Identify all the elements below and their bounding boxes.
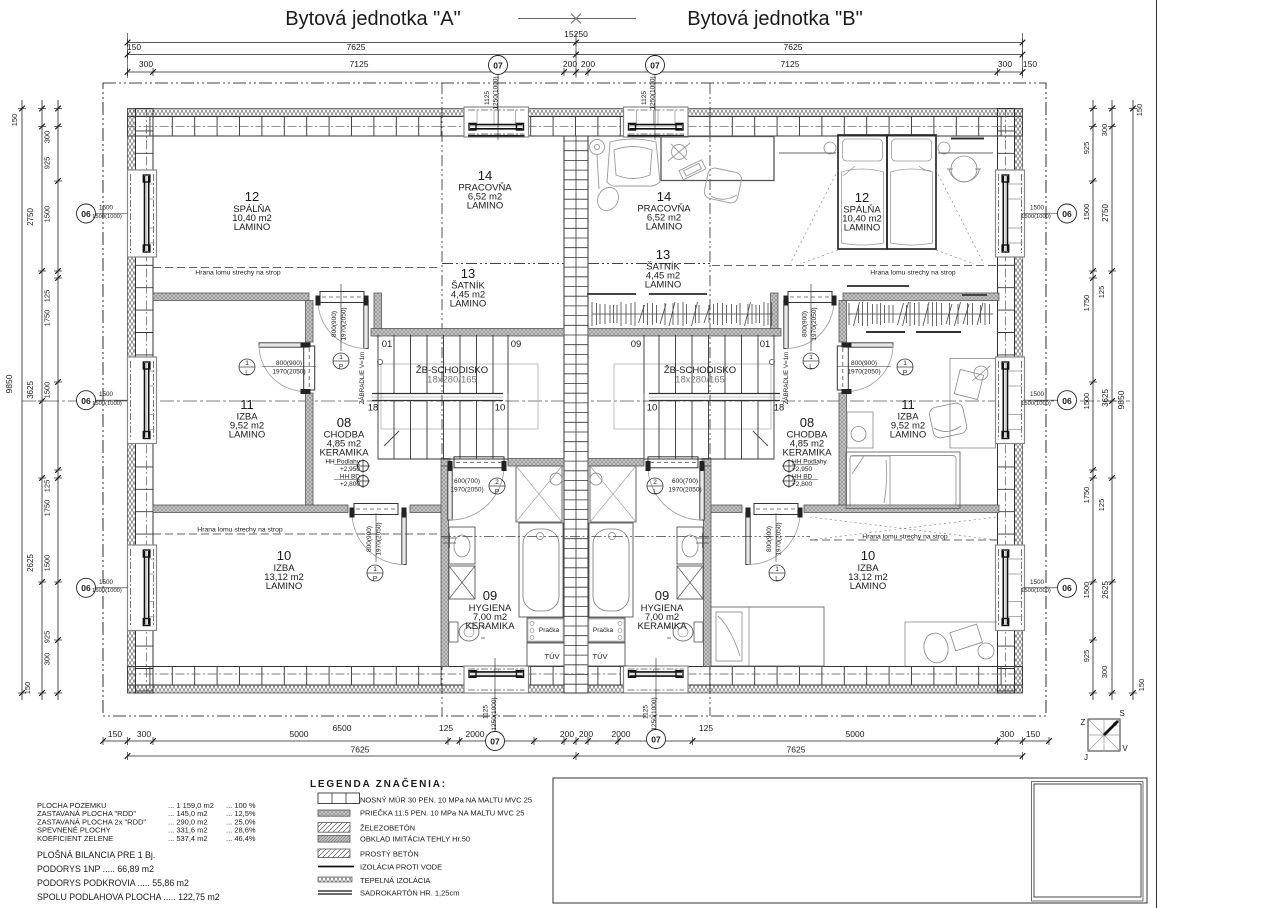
svg-text:7125: 7125: [350, 59, 369, 69]
window label 06: [1058, 204, 1077, 223]
outer wall bottom: [128, 685, 1023, 693]
svg-text:PODORYS PODKROVIA ..... 55,86: PODORYS PODKROVIA ..... 55,86 m2: [37, 878, 189, 888]
window label 06: [1058, 578, 1077, 597]
svg-text:IZOLÁCIA PROTI VODE: IZOLÁCIA PROTI VODE: [360, 863, 442, 872]
svg-text:ZÁBRADLIE V=1m: ZÁBRADLIE V=1m: [783, 352, 790, 404]
svg-text:1: 1: [245, 360, 249, 367]
svg-text:P: P: [373, 576, 377, 583]
svg-text:P: P: [495, 489, 499, 496]
svg-text:3625: 3625: [1101, 389, 1110, 407]
svg-text:+2,800: +2,800: [340, 481, 360, 488]
section line: [22, 400, 1130, 402]
window axis A bottom: [494, 658, 496, 731]
svg-text:07: 07: [490, 737, 500, 747]
svg-text:TÚV: TÚV: [593, 652, 608, 661]
toilet A: [449, 622, 458, 642]
svg-text:1250(1000): 1250(1000): [493, 76, 500, 109]
door hygiena A: [448, 466, 452, 520]
svg-text:S: S: [1119, 709, 1124, 718]
svg-text:800(900): 800(900): [331, 311, 338, 337]
svg-text:9850: 9850: [1116, 390, 1126, 409]
beds room 12 B: [838, 135, 936, 249]
wall axis left: [146, 109, 148, 694]
party wall: [564, 136, 588, 693]
svg-text:14: 14: [657, 189, 671, 204]
svg-text:NOSNÝ MÚR 30 PEN. 10 MPa NA MA: NOSNÝ MÚR 30 PEN. 10 MPa NA MALTU MVC 25: [360, 796, 532, 805]
svg-text:150: 150: [1023, 59, 1037, 69]
svg-text:2750: 2750: [26, 208, 35, 226]
desk room 14 B: [661, 137, 774, 181]
svg-text:06: 06: [81, 583, 91, 593]
svg-text:125: 125: [43, 480, 52, 493]
washing machine Pracka B: [588, 618, 625, 642]
svg-text:TÚV: TÚV: [545, 652, 560, 661]
svg-text:LEGENDA ZNAČENIA:: LEGENDA ZNAČENIA:: [310, 777, 447, 790]
legend item obklad: [318, 836, 350, 843]
door room 10 B: [746, 513, 750, 565]
svg-text:800(900): 800(900): [366, 526, 373, 552]
svg-text:PRIEČKA 11.5 PEN. 10 MPa NA M: PRIEČKA 11.5 PEN. 10 MPa NA MALTU MVC 25: [360, 809, 524, 818]
svg-text:150: 150: [1137, 679, 1146, 692]
svg-text:1500: 1500: [43, 206, 52, 223]
svg-text:925: 925: [43, 157, 52, 170]
window label 06: [1058, 391, 1077, 410]
svg-text:300: 300: [43, 131, 52, 144]
svg-text:1970(2050): 1970(2050): [376, 522, 383, 555]
svg-text:11: 11: [901, 397, 915, 412]
window right wall top: [996, 170, 1025, 257]
svg-text:6500: 6500: [333, 723, 352, 733]
svg-text:LAMINO: LAMINO: [645, 280, 681, 291]
svg-text:1500: 1500: [1030, 205, 1045, 212]
roof break line room 10 A: [153, 533, 440, 535]
door opening frame: [304, 346, 315, 390]
svg-text:18: 18: [368, 403, 379, 414]
svg-text:1: 1: [373, 566, 377, 573]
svg-text:1125: 1125: [483, 705, 490, 719]
window label 06: [77, 204, 96, 223]
svg-text:7625: 7625: [347, 42, 366, 52]
boiler TUV A: [527, 643, 564, 666]
svg-text:01: 01: [760, 339, 771, 350]
sheet border: [1156, 0, 1158, 908]
floor level symbols corridor: [358, 461, 369, 472]
svg-text:P: P: [903, 370, 907, 377]
svg-text:9850: 9850: [4, 374, 14, 393]
svg-text:150: 150: [1135, 104, 1144, 117]
svg-text:300: 300: [139, 59, 153, 69]
legend item beton: [318, 849, 350, 858]
svg-text:LAMINO: LAMINO: [266, 581, 302, 592]
svg-text:06: 06: [1062, 396, 1072, 406]
svg-text:LAMINO: LAMINO: [234, 222, 270, 233]
outer wall left: [128, 109, 136, 694]
legend item nosny: [318, 793, 360, 804]
window bottom wall A: [464, 666, 529, 693]
stair ZB-SCHODISKO A: [378, 335, 508, 459]
partition corridor B upper: [839, 301, 847, 343]
svg-text:1500: 1500: [1082, 582, 1091, 599]
window axis B top: [654, 75, 656, 140]
partition above room 10 B left: [705, 505, 742, 513]
grid circle 07 A top: [489, 56, 508, 75]
svg-text:08: 08: [800, 415, 814, 430]
svg-text:Z: Z: [1081, 718, 1086, 727]
partition hygiena B right: [704, 466, 712, 667]
svg-text:300: 300: [998, 59, 1012, 69]
shower A: [516, 466, 562, 522]
svg-text:J: J: [1084, 753, 1088, 762]
svg-text:2000: 2000: [612, 729, 631, 739]
desk room 10 B: [905, 622, 997, 666]
svg-text:1970(2050): 1970(2050): [272, 369, 305, 376]
svg-text:12: 12: [245, 189, 259, 204]
bed room 10 B: [711, 607, 824, 666]
svg-text:10: 10: [861, 548, 875, 563]
svg-text:10: 10: [647, 403, 658, 414]
door room 11 B: [847, 343, 894, 347]
partition corridor B lower: [839, 393, 847, 507]
cabinet B: [677, 566, 703, 599]
legend item izol: [318, 866, 354, 868]
partition hygiena A top-left: [441, 459, 450, 467]
svg-text:5000: 5000: [290, 729, 309, 739]
window right wall middle: [996, 357, 1025, 444]
svg-text:5000: 5000: [846, 729, 865, 739]
right dimension chains: [1132, 100, 1134, 700]
svg-text:1500: 1500: [1030, 391, 1045, 398]
svg-text:1750: 1750: [1082, 295, 1091, 312]
svg-text:2750: 2750: [1101, 204, 1110, 222]
door axis corridor B: [810, 284, 812, 351]
roof projection lines room 10 B: [810, 517, 997, 540]
svg-text:1: 1: [775, 566, 779, 573]
svg-text:200: 200: [579, 729, 593, 739]
svg-text:1500(1000): 1500(1000): [1021, 588, 1051, 594]
nightstand room 11 B: [847, 412, 873, 448]
svg-text:+2,950: +2,950: [792, 466, 812, 473]
bottom dimension chain: [103, 740, 1049, 742]
svg-text:13: 13: [461, 266, 475, 281]
roof break line room 12 A: [153, 267, 440, 269]
window left wall middle: [128, 357, 157, 444]
svg-text:1970(2050): 1970(2050): [776, 522, 783, 555]
svg-text:06: 06: [81, 396, 91, 406]
svg-text:7125: 7125: [781, 59, 800, 69]
axis line room 14 B: [709, 83, 711, 716]
window label 06: [77, 391, 96, 410]
svg-text:1500: 1500: [1082, 393, 1091, 410]
svg-text:2: 2: [653, 479, 657, 486]
bottom dimension 7625: [128, 755, 1023, 757]
headboard ledge room 12 B: [779, 152, 836, 154]
north compass: [1088, 719, 1120, 751]
svg-text:125: 125: [1097, 499, 1106, 512]
svg-text:1: 1: [339, 354, 343, 361]
svg-text:07: 07: [493, 61, 503, 71]
partition above room 10 A: [153, 505, 348, 513]
roof break line across bathrooms: [441, 536, 810, 538]
svg-text:300: 300: [137, 729, 151, 739]
window top wall B: [624, 107, 689, 137]
door opening frame: [354, 504, 398, 515]
svg-text:L: L: [775, 576, 779, 583]
svg-text:1970(2050): 1970(2050): [847, 369, 880, 376]
svg-text:800(900): 800(900): [276, 360, 302, 367]
svg-text:925: 925: [43, 631, 52, 644]
svg-text:1250(1000): 1250(1000): [651, 697, 658, 730]
window label 06: [77, 578, 96, 597]
svg-text:7625: 7625: [784, 42, 803, 52]
svg-text:14: 14: [478, 168, 492, 183]
svg-text:06: 06: [81, 209, 91, 219]
svg-text:KERAMIKA: KERAMIKA: [782, 448, 832, 459]
svg-text:PODORYS 1NP ..... 66,89 m2: PODORYS 1NP ..... 66,89 m2: [37, 864, 154, 874]
svg-text:1500: 1500: [99, 391, 114, 398]
washing machine Pracka A: [527, 618, 564, 642]
bed room 11 B: [846, 452, 960, 509]
svg-text:1500(1000): 1500(1000): [92, 214, 122, 220]
svg-text:300: 300: [43, 653, 52, 666]
svg-text:1750: 1750: [43, 310, 52, 327]
wall axis bottom: [128, 673, 1023, 675]
partition satnik B: [588, 329, 781, 337]
window left wall top: [128, 170, 157, 257]
window sill top B: [628, 135, 685, 137]
door room 11 A: [259, 343, 306, 347]
svg-text:1500: 1500: [43, 382, 52, 399]
grid circle 07 B bottom: [647, 730, 666, 749]
grid circle 07 A bottom: [486, 732, 505, 751]
svg-text:1250(1000): 1250(1000): [650, 76, 657, 109]
property boundary line: [103, 83, 1046, 716]
svg-text:200: 200: [560, 729, 574, 739]
floor level symbols corridor: [784, 461, 795, 472]
svg-text:KOEFICIENT ZELENE: KOEFICIENT ZELENE: [37, 834, 113, 843]
svg-text:01: 01: [382, 339, 393, 350]
svg-text:... 537,4 m2: ... 537,4 m2: [168, 834, 208, 843]
svg-text:TEPELNÁ IZOLÁCIA: TEPELNÁ IZOLÁCIA: [360, 876, 430, 885]
svg-text:1: 1: [809, 354, 813, 361]
partition corridor B left: [771, 293, 779, 336]
extension lines top: [127, 33, 129, 78]
partition hygiena A top-right: [508, 459, 564, 467]
wardrobe rails satnik B: [587, 294, 773, 326]
svg-text:925: 925: [1082, 142, 1091, 155]
partition corridor A upper: [306, 301, 314, 343]
svg-text:Hrana lomu strechy na strop: Hrana lomu strechy na strop: [195, 270, 281, 277]
window sill top A: [468, 135, 525, 137]
partition above room 10 A right: [410, 505, 447, 513]
door axis corridor A: [340, 284, 342, 351]
partition satnik A: [371, 329, 564, 337]
bathtub A: [519, 523, 563, 617]
svg-text:150: 150: [23, 682, 32, 695]
svg-text:07: 07: [650, 61, 660, 71]
door hygiena B: [700, 466, 704, 520]
svg-text:18x280/165: 18x280/165: [675, 375, 725, 386]
svg-text:1125: 1125: [643, 705, 650, 719]
room 14 A boundary dash: [442, 263, 564, 265]
svg-text:1500: 1500: [1082, 204, 1091, 221]
svg-text:125: 125: [43, 290, 52, 303]
toilet B: [694, 622, 703, 642]
door opening frame: [837, 346, 848, 390]
svg-text:KERAMIKA: KERAMIKA: [465, 621, 515, 632]
svg-text:06: 06: [1062, 583, 1072, 593]
door room 10 A: [402, 513, 406, 565]
svg-text:1970(2050): 1970(2050): [811, 307, 818, 340]
shelf room 12 B top right: [951, 138, 984, 140]
svg-text:LAMINO: LAMINO: [450, 299, 486, 310]
svg-text:1500(1000): 1500(1000): [1021, 401, 1051, 407]
svg-text:1750: 1750: [1082, 487, 1091, 504]
shelf edges room 11 B: [866, 331, 905, 333]
svg-text:1: 1: [903, 360, 907, 367]
svg-text:ZÁBRADLIE V=1m: ZÁBRADLIE V=1m: [359, 352, 366, 404]
desk room 11 B: [928, 359, 995, 449]
armchair room 14 B: [590, 139, 661, 214]
svg-text:Bytová jednotka "A": Bytová jednotka "A": [285, 8, 460, 30]
boiler TUV B: [588, 643, 625, 666]
svg-text:1750: 1750: [43, 500, 52, 517]
door opening frame: [454, 457, 504, 468]
svg-text:LAMINO: LAMINO: [844, 223, 880, 234]
svg-text:09: 09: [511, 339, 522, 350]
svg-text:Hrana lomu strechy na strop: Hrana lomu strechy na strop: [862, 534, 948, 541]
svg-text:600(700): 600(700): [454, 478, 480, 485]
svg-text:300: 300: [1100, 124, 1109, 137]
door opening frame: [648, 457, 698, 468]
svg-text:800(900): 800(900): [802, 311, 809, 337]
outer wall top: [128, 109, 1023, 117]
partition corridor A lower: [306, 393, 314, 507]
room 14 B boundary dash: [588, 263, 710, 265]
svg-text:2: 2: [495, 479, 499, 486]
svg-text:1500: 1500: [43, 555, 52, 572]
svg-text:7625: 7625: [351, 745, 370, 755]
svg-text:150: 150: [127, 42, 141, 52]
svg-text:09: 09: [631, 339, 642, 350]
legend item prieckaL: [318, 810, 350, 816]
washbasin B: [677, 527, 703, 564]
window right wall bottom: [996, 545, 1025, 631]
svg-text:12: 12: [855, 190, 869, 205]
partition above room 10 B: [804, 505, 999, 513]
svg-text:Hrana lomu strechy na strop: Hrana lomu strechy na strop: [197, 527, 283, 534]
svg-text:07: 07: [651, 735, 661, 745]
svg-text:1125: 1125: [484, 91, 491, 105]
symmetry mark: [518, 18, 636, 20]
partition top of room 11 B: [843, 293, 999, 301]
svg-text:13: 13: [656, 247, 670, 262]
partition top of room 11 A: [153, 293, 309, 301]
stair void outline B: [614, 364, 771, 429]
washbasin A: [449, 527, 475, 564]
svg-text:300: 300: [1000, 729, 1014, 739]
svg-text:V: V: [1122, 744, 1128, 753]
door opening frame: [320, 292, 364, 303]
svg-text:1500: 1500: [99, 205, 114, 212]
grid circle 07 B top: [646, 56, 665, 75]
svg-text:3625: 3625: [26, 381, 35, 399]
legend item sadro: [318, 890, 352, 892]
svg-text:Hrana lomu strechy na strop: Hrana lomu strechy na strop: [870, 270, 956, 277]
wall axis top: [128, 126, 1023, 128]
svg-text:150: 150: [108, 729, 122, 739]
svg-text:P: P: [339, 364, 343, 371]
svg-text:Bytová jednotka "B": Bytová jednotka "B": [687, 8, 862, 30]
svg-text:L: L: [809, 364, 813, 371]
svg-text:08: 08: [337, 415, 351, 430]
svg-text:L: L: [245, 370, 249, 377]
svg-text:200: 200: [563, 59, 577, 69]
svg-text:10: 10: [495, 403, 506, 414]
svg-text:+2,950: +2,950: [340, 466, 360, 473]
shower B: [590, 466, 636, 522]
svg-text:1500(1000): 1500(1000): [92, 588, 122, 594]
svg-text:125: 125: [439, 723, 453, 733]
svg-text:1500: 1500: [1030, 579, 1045, 586]
window top wall A: [464, 107, 529, 137]
wardrobe rails room 11 B: [847, 286, 993, 326]
svg-text:+2,800: +2,800: [792, 481, 812, 488]
window axis B bottom: [655, 658, 657, 729]
svg-text:800(900): 800(900): [851, 360, 877, 367]
svg-text:LAMINO: LAMINO: [890, 430, 926, 441]
svg-text:300: 300: [1100, 666, 1109, 679]
roof projection lines room 12 B: [790, 170, 984, 264]
svg-text:KERAMIKA: KERAMIKA: [637, 621, 687, 632]
svg-text:09: 09: [483, 588, 497, 603]
partition hygiena B top-right: [702, 459, 711, 467]
svg-text:10: 10: [277, 548, 291, 563]
cabinet A: [449, 566, 475, 599]
svg-text:LAMINO: LAMINO: [229, 430, 265, 441]
axis line room 14 A: [441, 83, 443, 716]
svg-text:LAMINO: LAMINO: [646, 222, 682, 233]
svg-text:1500(1000): 1500(1000): [92, 401, 122, 407]
svg-text:125: 125: [699, 723, 713, 733]
svg-text:1500(1000): 1500(1000): [1021, 214, 1051, 220]
svg-text:1970(2050): 1970(2050): [668, 487, 701, 494]
svg-text:200: 200: [581, 59, 595, 69]
window bottom wall B: [624, 666, 689, 693]
outer wall right: [1015, 109, 1023, 694]
legend item zb: [318, 823, 350, 833]
svg-text:Pračka: Pračka: [539, 627, 560, 634]
svg-text:1500: 1500: [99, 579, 114, 586]
svg-text:2625: 2625: [26, 554, 35, 572]
svg-text:06: 06: [1062, 209, 1072, 219]
svg-text:1125: 1125: [641, 91, 648, 105]
svg-text:7625: 7625: [787, 745, 806, 755]
partition corridor A right: [374, 293, 382, 336]
svg-text:PROSTÝ BETÓN: PROSTÝ BETÓN: [360, 850, 419, 859]
svg-text:125: 125: [1097, 286, 1106, 299]
stair void outline A: [381, 364, 538, 429]
door opening frame: [754, 504, 798, 515]
door corridor B top: [784, 301, 788, 349]
svg-text:OBKLAD IMITÁCIA TEHLY Hr.50: OBKLAD IMITÁCIA TEHLY Hr.50: [360, 835, 470, 844]
svg-text:18x280/165: 18x280/165: [427, 375, 477, 386]
wall axis right: [1004, 109, 1006, 694]
svg-text:L: L: [653, 489, 657, 496]
svg-text:SPOLU PODLAHOVA PLOCHA ..... 1: SPOLU PODLAHOVA PLOCHA ..... 122,75 m2: [37, 892, 220, 902]
window axis A top: [497, 75, 499, 140]
svg-text:150: 150: [1026, 729, 1040, 739]
svg-text:925: 925: [1082, 650, 1091, 663]
